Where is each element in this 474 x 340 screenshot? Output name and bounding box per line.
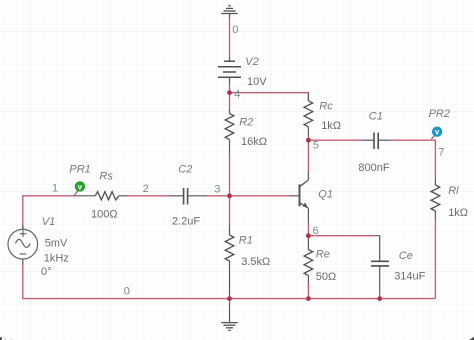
svg-text:V2: V2	[245, 56, 258, 68]
svg-text:PR2: PR2	[429, 108, 450, 120]
svg-text:1kΩ: 1kΩ	[448, 207, 468, 219]
svg-text:PR1: PR1	[69, 164, 90, 176]
svg-text:V1: V1	[42, 216, 55, 228]
svg-text:Q1: Q1	[318, 188, 333, 200]
svg-text:100Ω: 100Ω	[91, 208, 118, 220]
svg-text:2: 2	[143, 183, 149, 195]
svg-text:3.5kΩ: 3.5kΩ	[241, 256, 270, 268]
svg-text:800nF: 800nF	[358, 162, 389, 174]
svg-text:Re: Re	[316, 249, 330, 261]
svg-text:C2: C2	[178, 163, 192, 175]
svg-text:16kΩ: 16kΩ	[241, 136, 267, 148]
svg-text:Rc: Rc	[319, 100, 333, 112]
svg-text:2.2uF: 2.2uF	[172, 216, 200, 228]
svg-text:Rs: Rs	[99, 171, 113, 183]
svg-text:R2: R2	[239, 117, 253, 129]
svg-text:4: 4	[234, 88, 240, 100]
svg-text:10V: 10V	[247, 76, 267, 88]
svg-text:5mV: 5mV	[45, 238, 68, 250]
svg-text:C1: C1	[369, 110, 383, 122]
svg-text:1kΩ: 1kΩ	[321, 120, 341, 132]
svg-text:0°: 0°	[41, 266, 52, 278]
svg-text:5: 5	[313, 139, 319, 151]
svg-text:7: 7	[438, 147, 444, 159]
svg-text:314uF: 314uF	[394, 271, 425, 283]
svg-text:v: v	[78, 182, 83, 191]
svg-text:0: 0	[124, 285, 130, 297]
svg-text:6: 6	[313, 225, 319, 237]
svg-text:v: v	[435, 128, 440, 137]
svg-text:Ce: Ce	[399, 250, 413, 262]
svg-text:0: 0	[232, 24, 238, 36]
svg-text:1kHz: 1kHz	[44, 252, 69, 264]
svg-text:3: 3	[214, 183, 220, 195]
svg-text:50Ω: 50Ω	[316, 271, 336, 283]
svg-text:1: 1	[52, 183, 58, 195]
svg-text:Rl: Rl	[448, 185, 459, 197]
svg-text:R1: R1	[239, 235, 253, 247]
